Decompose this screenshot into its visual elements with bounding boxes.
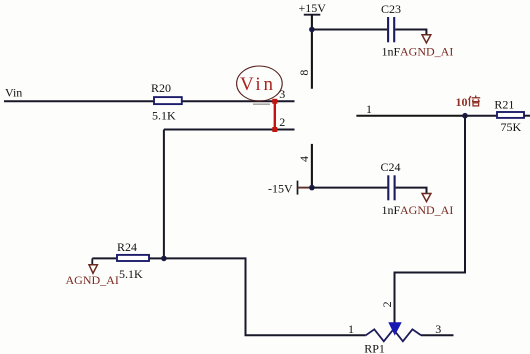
svg-text:AGND_AI: AGND_AI xyxy=(66,273,119,287)
wire junction to RP1 pin 1 xyxy=(164,258,366,335)
wire pin 2 horizontal xyxy=(164,129,295,131)
wire pin2 down to R24 row xyxy=(163,130,165,259)
wire -15V bar to pin4 node xyxy=(298,187,312,189)
wire C24 to ground xyxy=(396,188,427,194)
svg-text:10: 10 xyxy=(456,95,468,109)
svg-text:5.1K: 5.1K xyxy=(119,267,143,281)
capacitor C24 xyxy=(388,175,394,200)
svg-text:2: 2 xyxy=(279,115,285,129)
svg-text:AGND_AI: AGND_AI xyxy=(400,45,453,59)
power -15V xyxy=(268,181,298,196)
ground AGND_AI (left) xyxy=(89,258,97,273)
wire Vin to R20 xyxy=(4,100,155,102)
svg-text:+15V: +15V xyxy=(299,1,327,15)
svg-text:3: 3 xyxy=(435,322,441,336)
junction at pin1 net xyxy=(462,113,468,119)
wire red net tie pin3-pin2 xyxy=(272,99,277,132)
power +15V xyxy=(299,1,327,15)
svg-text:AGND_AI: AGND_AI xyxy=(400,203,453,217)
wire R24 to junction xyxy=(149,257,164,259)
svg-text:1: 1 xyxy=(366,102,372,116)
wire junction to C24 xyxy=(312,187,388,189)
svg-text:Vin: Vin xyxy=(5,85,22,99)
junction at +15V rail xyxy=(309,27,315,33)
wire R21 to right edge xyxy=(524,115,530,117)
junction at R24 net xyxy=(161,256,167,262)
svg-text:C23: C23 xyxy=(381,2,401,16)
node Vin annotation circle xyxy=(237,66,283,101)
svg-text:RP1: RP1 xyxy=(364,342,385,354)
wire ground to R24 xyxy=(92,257,118,259)
svg-text:75K: 75K xyxy=(501,120,522,134)
svg-text:R24: R24 xyxy=(117,240,137,254)
capacitor C23 xyxy=(388,17,394,42)
svg-text:4: 4 xyxy=(297,156,311,162)
svg-text:3: 3 xyxy=(279,87,285,101)
svg-text:C24: C24 xyxy=(381,160,401,174)
svg-text:1nF: 1nF xyxy=(382,45,401,59)
wire +15V bar down to pin 8 xyxy=(311,15,313,89)
wire pin 1 xyxy=(356,115,465,117)
ground AGND_AI (C24) xyxy=(422,194,431,202)
wire ghost dash under Vin circle xyxy=(253,103,270,105)
svg-text:R20: R20 xyxy=(151,81,171,95)
svg-text:Vin: Vin xyxy=(240,74,276,95)
wire C23 to ground xyxy=(395,30,426,35)
resistor R24 xyxy=(117,255,149,261)
wire R20 to pin 3 xyxy=(181,100,295,102)
junction at -15V rail xyxy=(309,185,315,191)
svg-text:1: 1 xyxy=(348,322,354,336)
resistor R21 xyxy=(497,112,524,118)
resistor R20 xyxy=(154,97,182,104)
net label 10x (10 bei) xyxy=(456,95,481,109)
svg-text:8: 8 xyxy=(297,70,311,76)
wire junction to R21 xyxy=(465,115,497,117)
svg-text:-15V: -15V xyxy=(268,182,293,196)
svg-text:1nF: 1nF xyxy=(382,203,401,217)
wire pin 4 xyxy=(311,144,313,188)
wire junction to C23 xyxy=(312,29,387,31)
wire junction down to RP1 wiper xyxy=(395,116,466,324)
wire RP1 pin 3 lead xyxy=(421,334,454,336)
ground AGND_AI (C23) xyxy=(422,35,431,43)
svg-text:2: 2 xyxy=(380,301,394,307)
svg-text:5.1K: 5.1K xyxy=(152,109,176,123)
potentiometer RP1 xyxy=(366,323,421,342)
svg-text:R21: R21 xyxy=(494,98,514,112)
